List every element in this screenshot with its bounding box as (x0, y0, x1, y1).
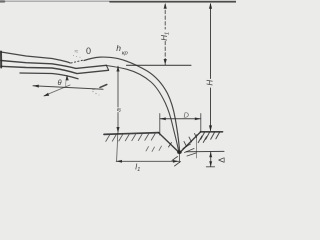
svg-text:D: D (184, 111, 190, 120)
svg-text:a: a (115, 108, 122, 112)
svg-text:l1: l1 (135, 163, 140, 174)
svg-text:Δ: Δ (217, 157, 227, 163)
svg-text:кр: кр (122, 50, 129, 56)
svg-text:H1: H1 (160, 32, 170, 41)
svg-text:0: 0 (86, 46, 91, 56)
svg-text:H: H (206, 80, 215, 86)
svg-text:≈: ≈ (75, 49, 79, 56)
svg-text:h: h (116, 43, 121, 53)
svg-text:θ: θ (58, 78, 62, 87)
